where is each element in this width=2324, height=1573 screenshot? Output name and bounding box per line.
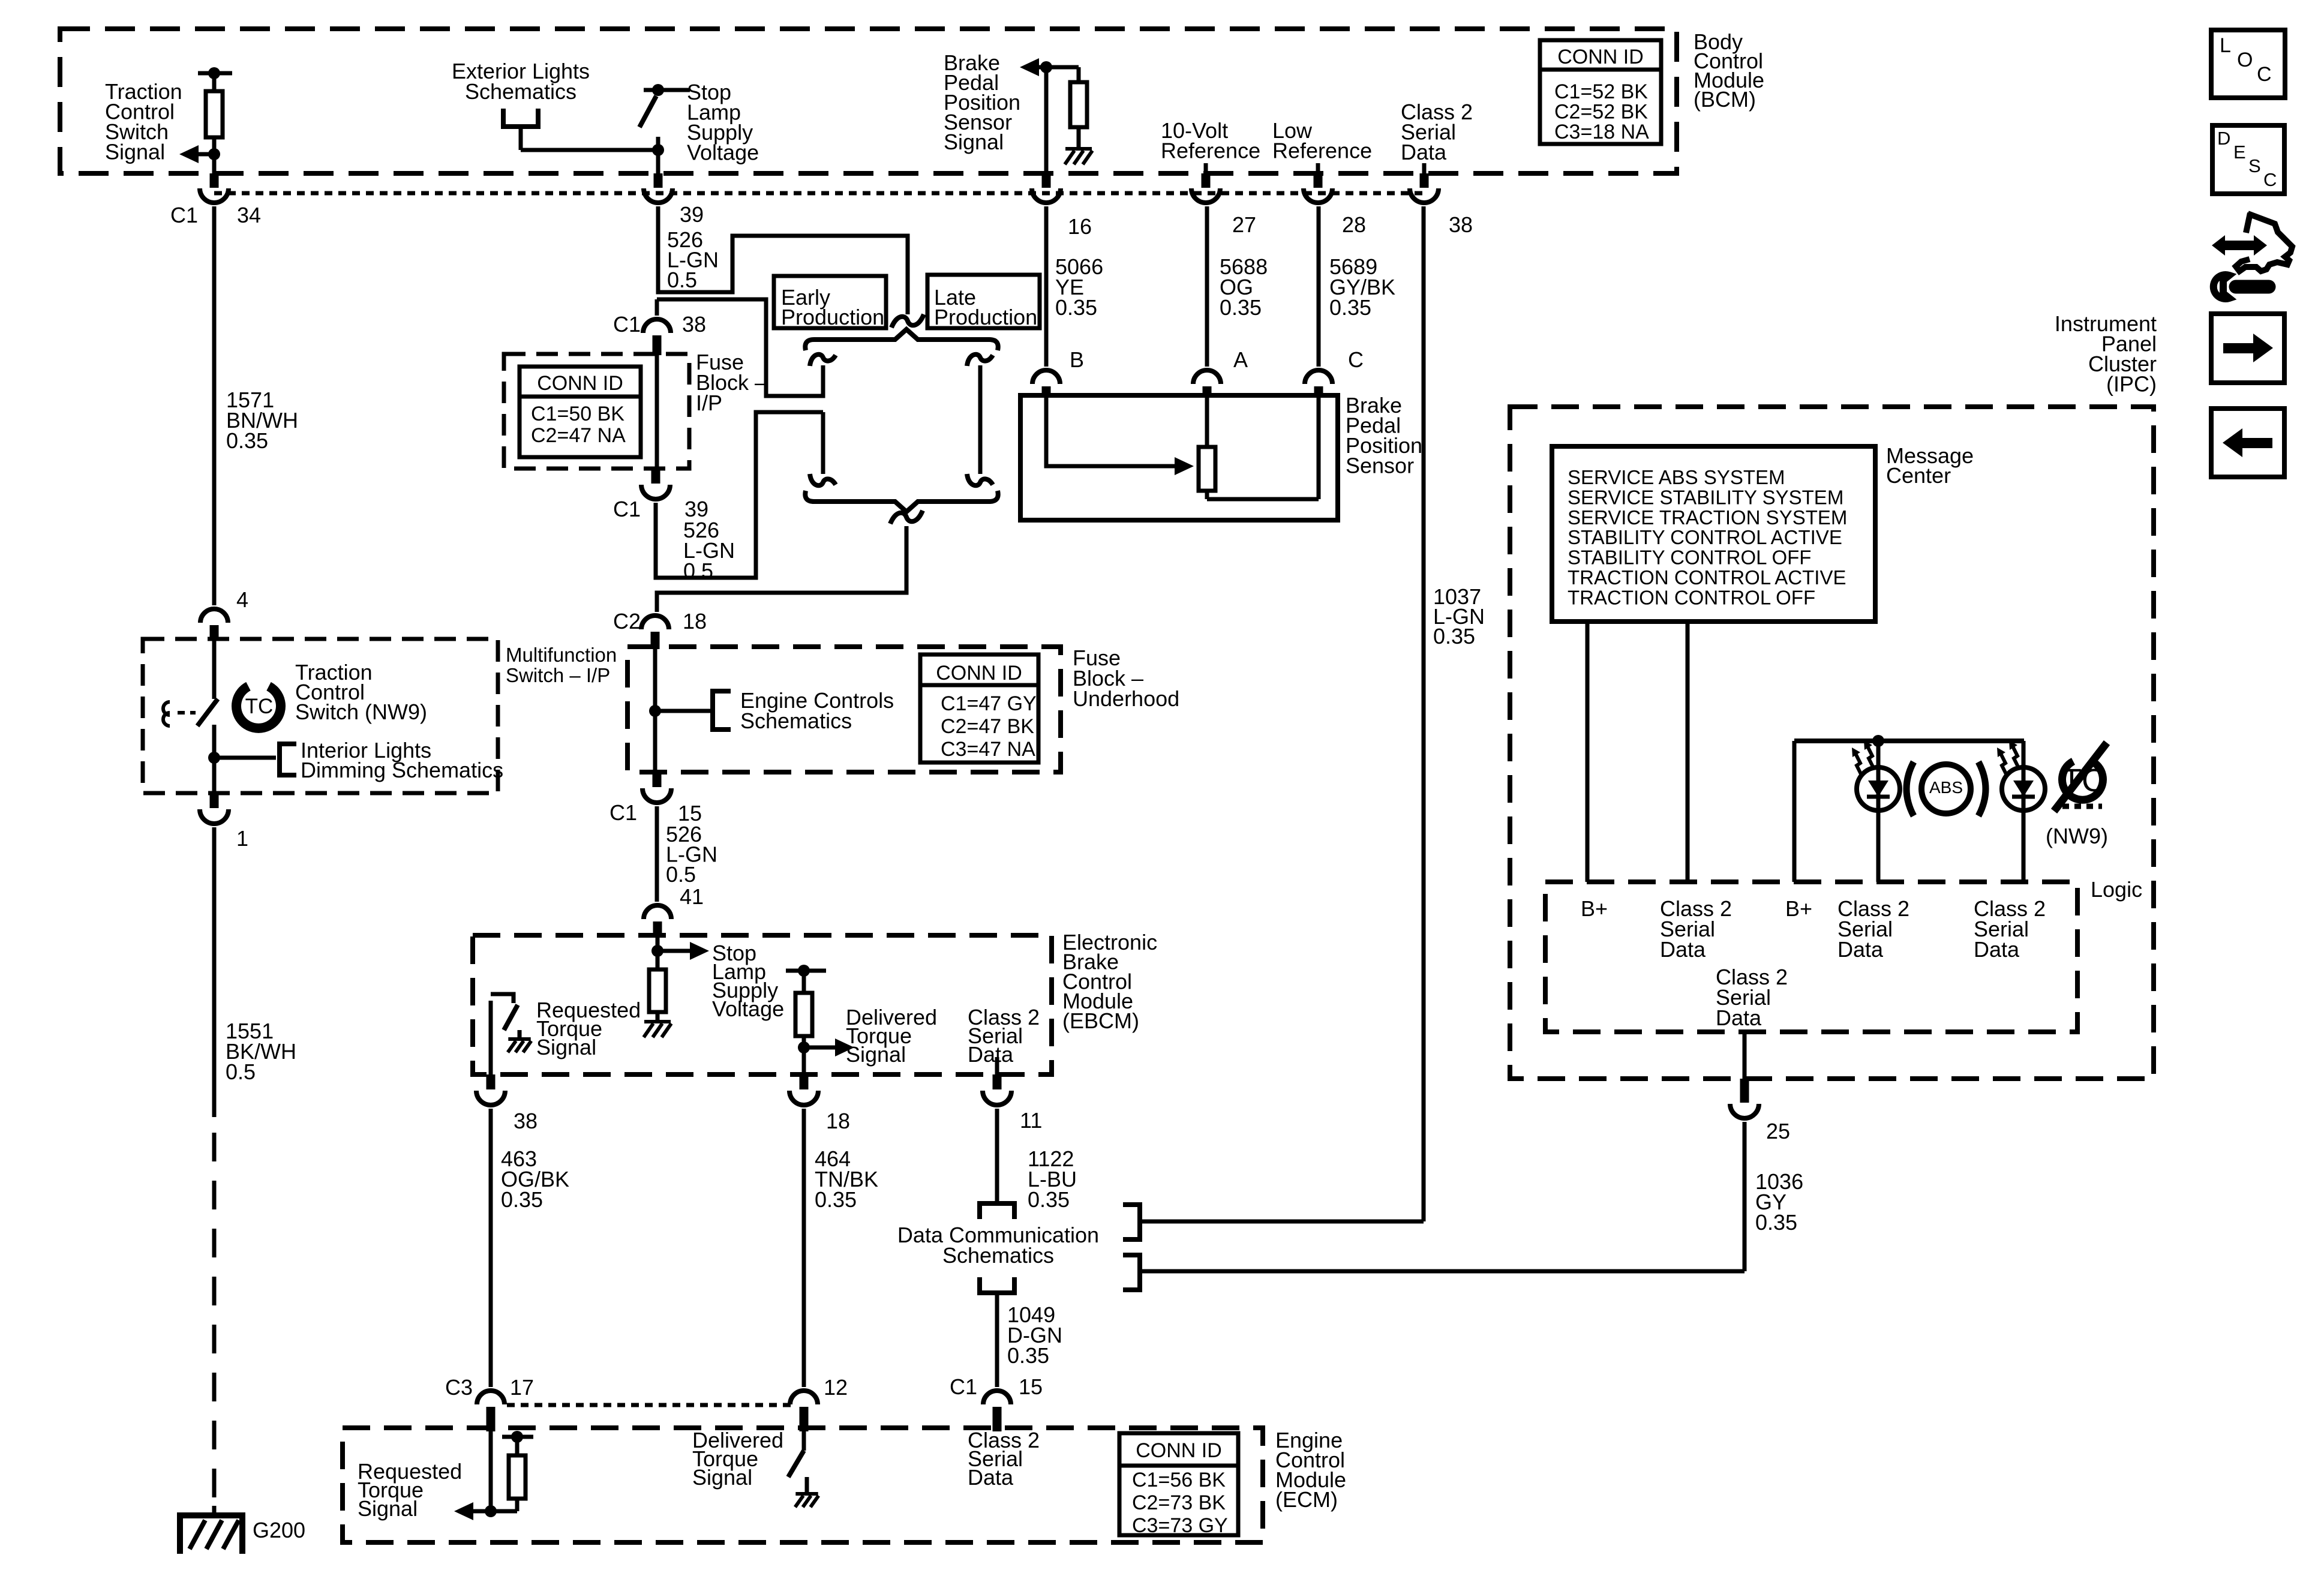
svg-text:C1: C1 xyxy=(170,203,198,227)
svg-text:0.35: 0.35 xyxy=(226,428,268,453)
svg-text:D: D xyxy=(2217,128,2230,149)
svg-text:Switch (NW9): Switch (NW9) xyxy=(295,700,427,724)
svg-text:C1=50 BK: C1=50 BK xyxy=(531,403,624,425)
svg-text:25: 25 xyxy=(1766,1119,1790,1143)
svg-text:Voltage: Voltage xyxy=(687,140,759,165)
svg-text:C1: C1 xyxy=(613,497,641,521)
svg-text:SERVICE STABILITY SYSTEM: SERVICE STABILITY SYSTEM xyxy=(1568,486,1843,508)
svg-text:Data: Data xyxy=(968,1042,1014,1067)
svg-text:16: 16 xyxy=(1068,214,1092,239)
svg-text:15: 15 xyxy=(1019,1374,1043,1399)
svg-text:38: 38 xyxy=(682,312,706,337)
svg-text:C1=56 BK: C1=56 BK xyxy=(1132,1469,1226,1491)
svg-text:Signal: Signal xyxy=(692,1465,752,1490)
svg-text:Voltage: Voltage xyxy=(712,996,784,1021)
svg-text:4: 4 xyxy=(236,587,248,612)
svg-text:Production: Production xyxy=(781,305,884,329)
svg-text:S: S xyxy=(2248,155,2261,176)
svg-text:(BCM): (BCM) xyxy=(1694,87,1756,112)
svg-text:17: 17 xyxy=(510,1375,534,1400)
svg-text:G200: G200 xyxy=(253,1518,305,1542)
svg-text:L: L xyxy=(2220,34,2231,57)
svg-text:C1=47 GY: C1=47 GY xyxy=(941,692,1037,715)
svg-text:B+: B+ xyxy=(1581,896,1608,921)
svg-text:0.35: 0.35 xyxy=(1433,624,1475,649)
svg-text:Multifunction: Multifunction xyxy=(506,644,617,666)
svg-text:Data: Data xyxy=(1660,937,1706,962)
svg-text:0.35: 0.35 xyxy=(1220,295,1262,320)
svg-text:C2: C2 xyxy=(613,609,641,634)
svg-text:TRACTION CONTROL OFF: TRACTION CONTROL OFF xyxy=(1568,586,1815,608)
svg-text:CONN ID: CONN ID xyxy=(1136,1439,1222,1462)
svg-text:Data: Data xyxy=(1401,140,1447,164)
svg-text:Data: Data xyxy=(1716,1005,1762,1030)
svg-text:0.35: 0.35 xyxy=(1055,295,1097,320)
svg-text:TC: TC xyxy=(245,695,274,718)
svg-text:Signal: Signal xyxy=(358,1496,418,1521)
svg-text:0.35: 0.35 xyxy=(501,1187,543,1212)
svg-text:0.5: 0.5 xyxy=(226,1059,256,1084)
svg-text:A: A xyxy=(1233,347,1248,372)
svg-text:38: 38 xyxy=(1449,212,1473,237)
svg-text:0.35: 0.35 xyxy=(1329,295,1371,320)
svg-text:I/P: I/P xyxy=(696,391,722,415)
svg-text:C1: C1 xyxy=(609,800,637,825)
svg-text:STABILITY CONTROL OFF: STABILITY CONTROL OFF xyxy=(1568,547,1811,569)
svg-text:C3=47 NA: C3=47 NA xyxy=(941,738,1035,761)
svg-text:CONN ID: CONN ID xyxy=(936,662,1022,685)
svg-text:0.5: 0.5 xyxy=(667,268,697,292)
svg-text:(NW9): (NW9) xyxy=(2046,824,2108,848)
svg-text:27: 27 xyxy=(1232,212,1256,237)
svg-text:C: C xyxy=(2263,169,2277,190)
svg-text:Signal: Signal xyxy=(944,130,1004,154)
svg-text:Underhood: Underhood xyxy=(1073,686,1179,711)
svg-text:34: 34 xyxy=(237,203,261,227)
svg-text:Switch – I/P: Switch – I/P xyxy=(506,664,610,686)
svg-text:39: 39 xyxy=(680,202,704,227)
svg-text:Dimming Schematics: Dimming Schematics xyxy=(301,758,503,782)
svg-text:1: 1 xyxy=(236,826,248,851)
svg-text:TRACTION CONTROL ACTIVE: TRACTION CONTROL ACTIVE xyxy=(1568,566,1846,589)
svg-text:B: B xyxy=(1070,347,1084,372)
svg-text:38: 38 xyxy=(514,1109,538,1133)
svg-text:C3: C3 xyxy=(445,1375,473,1400)
svg-text:11: 11 xyxy=(1020,1108,1042,1133)
svg-text:(EBCM): (EBCM) xyxy=(1062,1008,1139,1033)
svg-text:Data: Data xyxy=(1974,937,2020,962)
svg-text:Data: Data xyxy=(1837,937,1884,962)
svg-text:41: 41 xyxy=(680,884,704,909)
svg-text:Signal: Signal xyxy=(536,1035,596,1059)
svg-text:(ECM): (ECM) xyxy=(1275,1487,1338,1512)
svg-text:CONN ID: CONN ID xyxy=(537,372,623,395)
svg-text:12: 12 xyxy=(824,1375,848,1400)
svg-text:C1: C1 xyxy=(950,1374,977,1399)
svg-text:STABILITY CONTROL ACTIVE: STABILITY CONTROL ACTIVE xyxy=(1568,526,1842,548)
svg-text:C1=52 BK: C1=52 BK xyxy=(1554,80,1648,103)
svg-text:O: O xyxy=(2237,49,2253,71)
svg-text:C3=73 GY: C3=73 GY xyxy=(1132,1514,1228,1537)
svg-text:Signal: Signal xyxy=(105,140,165,164)
svg-text:0.35: 0.35 xyxy=(815,1187,857,1212)
svg-text:C2=52 BK: C2=52 BK xyxy=(1554,101,1648,124)
svg-text:SERVICE TRACTION SYSTEM: SERVICE TRACTION SYSTEM xyxy=(1568,506,1847,529)
svg-text:E: E xyxy=(2233,142,2246,163)
svg-text:SERVICE ABS SYSTEM: SERVICE ABS SYSTEM xyxy=(1568,466,1785,488)
svg-text:Center: Center xyxy=(1886,463,1951,488)
svg-text:18: 18 xyxy=(683,609,707,634)
svg-text:Schematics: Schematics xyxy=(465,79,577,104)
svg-text:(IPC): (IPC) xyxy=(2106,372,2157,397)
svg-text:18: 18 xyxy=(826,1109,850,1133)
svg-text:ABS: ABS xyxy=(1929,778,1963,797)
svg-text:Reference: Reference xyxy=(1161,139,1260,163)
svg-text:C2=73 BK: C2=73 BK xyxy=(1132,1491,1226,1514)
svg-text:C1: C1 xyxy=(613,312,641,337)
svg-text:Production: Production xyxy=(934,305,1037,329)
svg-text:0.35: 0.35 xyxy=(1755,1210,1797,1235)
svg-text:Data: Data xyxy=(968,1465,1014,1490)
svg-text:C: C xyxy=(1348,347,1364,372)
svg-text:0.5: 0.5 xyxy=(666,862,696,887)
svg-text:Signal: Signal xyxy=(846,1042,906,1067)
svg-text:Sensor: Sensor xyxy=(1346,454,1414,478)
svg-text:0.35: 0.35 xyxy=(1007,1343,1049,1368)
svg-text:C2=47 BK: C2=47 BK xyxy=(941,715,1034,738)
svg-text:C3=18 NA: C3=18 NA xyxy=(1554,121,1649,143)
svg-text:Reference: Reference xyxy=(1272,139,1372,163)
svg-text:Schematics: Schematics xyxy=(740,709,852,733)
svg-text:C: C xyxy=(2257,63,2272,86)
svg-text:0.35: 0.35 xyxy=(1028,1187,1070,1212)
svg-text:28: 28 xyxy=(1342,212,1366,237)
svg-text:CONN ID: CONN ID xyxy=(1557,46,1644,68)
svg-text:Logic: Logic xyxy=(2091,877,2142,902)
svg-text:Schematics: Schematics xyxy=(942,1243,1054,1268)
svg-text:C2=47 NA: C2=47 NA xyxy=(531,424,626,447)
svg-text:B+: B+ xyxy=(1785,896,1812,921)
